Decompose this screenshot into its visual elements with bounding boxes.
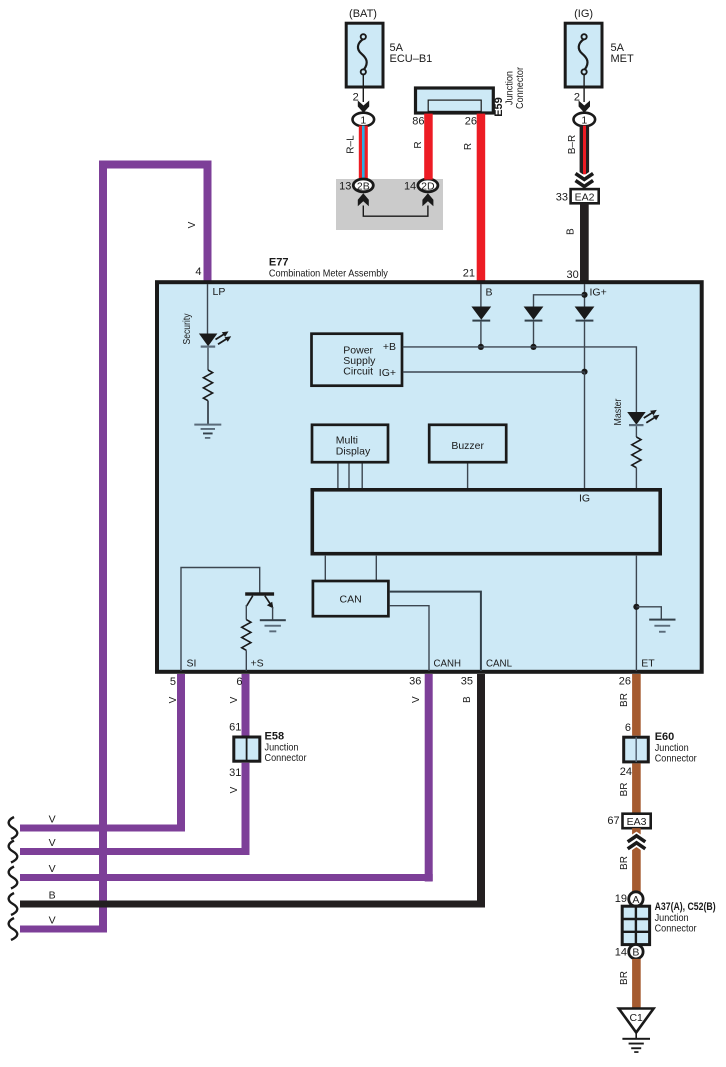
- svg-text:6: 6: [236, 676, 242, 688]
- pin IG+ wire with junction dot: [534, 284, 607, 308]
- wire B-R (circle 1 to EA2): [567, 126, 589, 175]
- svg-text:86: 86: [412, 116, 424, 128]
- svg-text:BR: BR: [619, 856, 630, 870]
- wire resistor to ground: [207, 401, 209, 424]
- svg-text:R: R: [413, 141, 424, 148]
- svg-text:V: V: [411, 696, 422, 703]
- svg-text:(BAT): (BAT): [349, 8, 377, 20]
- wire BR (ET pin 26 to E60): [619, 674, 641, 736]
- rail wire B 4 (to CANL): [20, 890, 485, 905]
- svg-text:CANH: CANH: [434, 658, 462, 670]
- squiggle rail 5: [9, 918, 18, 940]
- pin B wire: [481, 284, 493, 308]
- svg-text:V: V: [187, 221, 198, 228]
- svg-text:14: 14: [615, 946, 627, 958]
- svg-text:B: B: [49, 890, 56, 902]
- wire CAN to CANL pin: [390, 592, 481, 671]
- svg-text:Security: Security: [182, 314, 193, 345]
- wire buzzer to main box: [467, 464, 469, 490]
- power supply circuit box U1: [312, 334, 403, 386]
- svg-text:5: 5: [170, 676, 176, 688]
- svg-text:Display: Display: [336, 445, 371, 457]
- svg-text:Buzzer: Buzzer: [451, 440, 484, 452]
- svg-text:V: V: [49, 814, 56, 826]
- svg-text:B–R: B–R: [567, 135, 578, 154]
- chevron arrow into EA2: [576, 174, 594, 187]
- wire LED to resistor: [207, 348, 209, 370]
- wires main box to CAN box: [325, 556, 376, 581]
- resistor (master): [632, 437, 641, 468]
- wire CAN to CANH pin: [390, 606, 429, 671]
- wire B (CANL pin 35): [461, 674, 485, 908]
- svg-text:R–L: R–L: [346, 135, 357, 154]
- svg-text:2B: 2B: [357, 181, 370, 193]
- wire V (SI pin 5): [168, 674, 185, 832]
- svg-text:26: 26: [465, 116, 477, 128]
- wire resistor to +S pin: [245, 650, 247, 671]
- wire V (+S pin 6 to E58): [229, 674, 250, 737]
- svg-text:B: B: [486, 286, 493, 298]
- arrow into connector 1 (BAT): [358, 101, 369, 113]
- svg-text:A: A: [632, 894, 639, 906]
- ground C1: [619, 1009, 654, 1053]
- junction dot on +B line at IG+ branch: [530, 344, 536, 350]
- svg-text:B: B: [566, 228, 577, 235]
- wire B (EA2 to meter pin 30): [566, 203, 589, 281]
- multi display box: [312, 425, 388, 462]
- pin 2 of IG fuse: [574, 75, 584, 104]
- junction connector E58: [234, 731, 307, 764]
- resistor (+S): [242, 620, 251, 651]
- connector 2B pin 13: [339, 179, 373, 193]
- arrow into connector 1 (IG): [579, 101, 590, 113]
- svg-text:SI: SI: [187, 658, 197, 670]
- svg-text:IG+: IG+: [590, 286, 607, 298]
- svg-text:26: 26: [619, 675, 631, 687]
- squiggle rail 2: [9, 841, 18, 863]
- svg-text:31: 31: [229, 767, 241, 779]
- svg-text:V: V: [168, 696, 179, 703]
- ground (ET): [649, 619, 675, 633]
- svg-text:19: 19: [615, 893, 627, 905]
- svg-text:1: 1: [581, 115, 587, 127]
- LED Security: [182, 314, 231, 348]
- pin LP wire: [208, 284, 226, 334]
- svg-text:B: B: [462, 696, 473, 703]
- junction connector A37(A), C52(B): [622, 901, 716, 945]
- svg-text:C1: C1: [629, 1012, 643, 1024]
- svg-text:R: R: [463, 143, 474, 150]
- svg-text:2D: 2D: [421, 181, 435, 193]
- connector circle 1 (BAT): [353, 113, 375, 127]
- svg-text:ET: ET: [641, 658, 655, 670]
- +B line: [403, 347, 637, 412]
- junction dot on +B line at B: [478, 344, 484, 350]
- diode D2: [524, 307, 544, 347]
- wire V (E58 pin 31 down): [229, 763, 250, 855]
- wire BR (E60 pin 24 to EA3): [619, 763, 641, 813]
- CAN box: [313, 581, 389, 616]
- chevron arrow into EA3: [619, 836, 645, 870]
- svg-text:V: V: [229, 696, 240, 703]
- wire resistor to main box (master): [635, 468, 637, 489]
- svg-text:IG: IG: [579, 493, 590, 505]
- connector 2D pin 14: [404, 179, 438, 193]
- svg-text:Master: Master: [613, 398, 624, 426]
- svg-text:1: 1: [360, 115, 366, 127]
- svg-text:35: 35: [461, 675, 473, 687]
- svg-text:Combination Meter Assembly: Combination Meter Assembly: [269, 267, 389, 279]
- svg-text:B: B: [632, 947, 639, 959]
- wires multi display to main box: [338, 464, 362, 490]
- rail wire V 3 (to CANH): [20, 863, 433, 878]
- svg-text:(IG): (IG): [574, 8, 593, 20]
- squiggle rail 4: [9, 893, 18, 915]
- svg-text:BR: BR: [619, 783, 630, 797]
- svg-text:CANL: CANL: [486, 658, 512, 670]
- gray harness box: [336, 179, 443, 230]
- svg-text:30: 30: [567, 269, 579, 281]
- wire BR (EA3 to connector A): [632, 828, 641, 892]
- svg-text:EA2: EA2: [575, 191, 595, 203]
- svg-text:13: 13: [339, 181, 351, 193]
- ground (security): [194, 424, 221, 439]
- resistor (security): [203, 370, 212, 401]
- rail wire V 1 (to SI): [20, 814, 185, 829]
- svg-text:61: 61: [229, 722, 241, 734]
- rail wire V 2 (to +S): [20, 837, 250, 852]
- svg-text:MET: MET: [611, 53, 635, 65]
- connector circle 1 (IG): [574, 113, 596, 127]
- main circuit box: [312, 490, 660, 554]
- svg-text:4: 4: [195, 266, 201, 278]
- svg-text:33: 33: [556, 192, 568, 204]
- SI wire to transistor base: [181, 568, 260, 672]
- junction connector E59: [412, 67, 526, 128]
- transistor Q1: [245, 592, 274, 619]
- wire LED to resistor (master): [635, 426, 637, 437]
- svg-text:67: 67: [607, 815, 619, 827]
- svg-text:LP: LP: [213, 286, 226, 298]
- junction connector E60: [624, 731, 697, 765]
- svg-text:14: 14: [404, 181, 416, 193]
- svg-text:V: V: [229, 786, 240, 793]
- combination meter assembly E77 box: [157, 257, 702, 672]
- svg-text:21: 21: [463, 267, 475, 279]
- wire V loop (meter pin 4 up over to left rail): [103, 165, 208, 930]
- ground (transistor): [260, 619, 286, 632]
- connector EA2 pin 33: [556, 189, 599, 203]
- pin 2 of BAT fuse: [353, 75, 364, 104]
- svg-text:Connector: Connector: [514, 67, 526, 109]
- buzzer box: [429, 425, 506, 462]
- junction dot on IG+ line: [581, 369, 587, 375]
- svg-text:+S: +S: [251, 658, 264, 670]
- IG line into main box: [584, 372, 586, 489]
- svg-text:+B: +B: [383, 341, 396, 353]
- arrow up into 2B: [358, 193, 369, 206]
- svg-text:IG+: IG+: [379, 367, 396, 379]
- svg-text:ECU–B1: ECU–B1: [390, 53, 433, 65]
- connector circle A pin 19: [615, 892, 643, 906]
- svg-text:6: 6: [625, 722, 631, 734]
- pin name labels at meter bottom: [187, 658, 656, 670]
- fuse 5A MET (IG): [565, 8, 634, 87]
- connector EA3 pin 67: [607, 814, 650, 829]
- diode D1: [471, 307, 491, 347]
- svg-text:V: V: [49, 915, 56, 927]
- svg-text:V: V: [49, 863, 56, 875]
- svg-text:BR: BR: [619, 971, 630, 985]
- svg-text:Connector: Connector: [655, 923, 697, 935]
- diode D3: [575, 307, 595, 372]
- svg-text:36: 36: [409, 675, 421, 687]
- wire V (CANH pin 36): [409, 674, 433, 882]
- connector circle B pin 14: [615, 945, 643, 959]
- wire R-L (circle 1 to 2B): [346, 126, 368, 180]
- fuse 5A ECU-B1 (BAT): [346, 8, 432, 87]
- svg-text:BR: BR: [619, 693, 630, 707]
- svg-text:V: V: [49, 837, 56, 849]
- squiggle rail 3: [9, 867, 18, 889]
- svg-text:24: 24: [620, 766, 632, 778]
- wire R (E59 pin 86 to 2D): [413, 114, 433, 180]
- svg-text:EA3: EA3: [627, 816, 647, 828]
- svg-text:Circuit: Circuit: [343, 366, 373, 378]
- rail wire V 5 (to pin-4 loop): [20, 915, 107, 930]
- wire BR (connector B to C1 ground): [619, 959, 641, 1009]
- squiggle rail 1: [9, 817, 18, 839]
- wire R (E59 pin 26 to meter pin 21): [463, 114, 485, 281]
- link wire between 2B and 2D: [363, 206, 428, 217]
- IG+ line: [403, 371, 585, 373]
- svg-text:Connector: Connector: [655, 753, 697, 765]
- svg-text:CAN: CAN: [340, 594, 362, 606]
- svg-text:Connector: Connector: [265, 752, 307, 764]
- LED Master: [613, 398, 660, 426]
- ET internal wire with junction dot: [633, 556, 661, 671]
- arrow up into 2D: [422, 193, 433, 206]
